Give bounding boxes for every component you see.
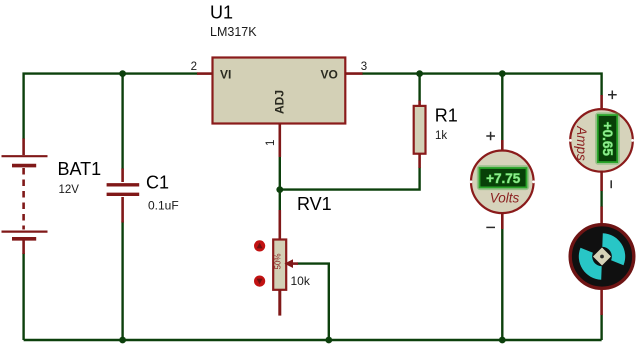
potentiometer RV1 (273, 210, 286, 316)
svg-text:BAT1: BAT1 (58, 159, 102, 179)
svg-text:ADJ: ADJ (272, 90, 286, 114)
wire: motor bottom to ground rail (600, 315, 602, 341)
op-amp/regulator U1 LM317K body (213, 58, 346, 124)
svg-text:Volts: Volts (490, 191, 520, 206)
wire: C1 bottom to ground rail (121, 222, 123, 341)
resistor R1 (414, 101, 426, 169)
label RV1 (297, 194, 332, 214)
ammeter LCD display +0.65 (596, 114, 618, 164)
wire: U1 VO to ammeter top (362, 74, 602, 96)
wire: top rail from battery+ to U1 VI pin (24, 74, 198, 139)
wire: ADJ node to RV1 and R1 bottom (280, 157, 420, 211)
node: junction ground rail / voltmeter (499, 337, 506, 344)
motor bottom pin (600, 290, 603, 316)
voltmeter label Volts (490, 191, 520, 206)
svg-text:2: 2 (191, 61, 197, 73)
svg-text:Amps: Amps (574, 125, 589, 161)
voltmeter top pin (501, 140, 504, 152)
voltmeter - mark (486, 226, 495, 228)
RV1 wiper arrow (284, 259, 298, 268)
pin number 2 (191, 61, 197, 73)
svg-text:12V: 12V (59, 184, 80, 196)
node: junction top rail / voltmeter (499, 70, 506, 77)
wire: voltmeter top branch (501, 74, 503, 141)
pin 2 of U1 (VI) (197, 72, 213, 75)
value 1k (435, 130, 447, 142)
ammeter top pin (600, 95, 603, 110)
value 10k (291, 274, 311, 288)
node: junction top rail / R1 (416, 70, 423, 77)
label BAT1 (58, 159, 102, 179)
svg-text:+0.65: +0.65 (600, 122, 615, 157)
svg-text:0.1uF: 0.1uF (148, 199, 179, 213)
wire: voltmeter bottom branch (501, 229, 503, 341)
pin number 3 (361, 61, 367, 73)
label R1 (435, 106, 458, 126)
pin name VO (321, 67, 338, 81)
label C1 (146, 173, 169, 193)
svg-text:C1: C1 (146, 173, 169, 193)
svg-text:1k: 1k (435, 130, 447, 142)
RV1 wiper position 50% (273, 253, 282, 269)
value LM317K (210, 25, 257, 39)
svg-text:LM317K: LM317K (210, 25, 257, 39)
svg-text:U1: U1 (210, 2, 233, 22)
capacitor C1 (107, 169, 140, 223)
svg-text:+7.75: +7.75 (486, 171, 521, 186)
ammeter bottom pin (600, 171, 603, 192)
svg-text:10k: 10k (291, 274, 311, 288)
pin 3 of U1 (VO) (345, 72, 362, 75)
node: junction ground rail / C1 (119, 337, 126, 344)
ammeter + mark (608, 91, 617, 100)
node: junction ground rail / RV1 wiper (325, 337, 332, 344)
motor top pin (600, 207, 603, 225)
motor body (570, 225, 634, 289)
value 12V (59, 184, 80, 196)
wire: battery- to ground rail (22, 253, 24, 340)
svg-text:VO: VO (321, 67, 338, 81)
svg-text:3: 3 (361, 61, 367, 73)
voltmeter bottom pin (501, 213, 504, 230)
node: junction ADJ wire (276, 186, 283, 193)
motor rotor arc top-right (602, 233, 625, 265)
ammeter label Amps (574, 125, 589, 161)
motor shaft diamond (593, 248, 611, 266)
value 0.1uF (148, 199, 179, 213)
pin number 1 (265, 140, 277, 146)
svg-text:VI: VI (220, 67, 231, 81)
ammeter - mark (610, 180, 612, 188)
RV1 decrement button (254, 276, 265, 287)
svg-text:1: 1 (265, 140, 277, 146)
voltmeter LCD display +7.75 (478, 167, 528, 189)
svg-text:RV1: RV1 (297, 194, 332, 214)
pin 1 of U1 (ADJ) (278, 124, 281, 158)
battery BAT1 (2, 139, 48, 255)
pin name ADJ (272, 90, 286, 114)
wire: bottom ground rail (24, 339, 602, 341)
node: junction top rail / C1 (119, 70, 126, 77)
svg-text:R1: R1 (435, 106, 458, 126)
ammeter body (569, 109, 634, 172)
pin name VI (220, 67, 231, 81)
label U1 (210, 2, 233, 22)
wire: R1 top branch (418, 74, 420, 101)
wire: RV1 wiper to ground rail (298, 264, 329, 340)
voltmeter body (470, 151, 535, 214)
svg-text:50%: 50% (273, 253, 282, 269)
motor rotor arc bottom-left (579, 248, 602, 280)
voltmeter + mark (486, 132, 495, 141)
wire: ammeter to motor link (600, 191, 602, 208)
RV1 increment button (254, 240, 265, 251)
wire: C1 top branch (121, 74, 123, 170)
